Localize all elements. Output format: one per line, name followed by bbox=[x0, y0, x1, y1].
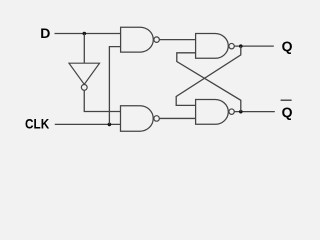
nand gate U4 bubble bbox=[229, 43, 234, 48]
node D junction bbox=[83, 32, 87, 36]
node CLK junction bbox=[108, 123, 112, 127]
label Qbar overline bbox=[281, 99, 292, 101]
wire D input bbox=[55, 33, 121, 35]
nand gate U5 bbox=[196, 100, 229, 125]
node Qbar junction bbox=[239, 110, 243, 114]
wire U3 output to U5 bbox=[159, 117, 195, 119]
wire CLK input bbox=[55, 123, 121, 125]
svg-text:CLK: CLK bbox=[25, 116, 49, 132]
wire CLK to U2 bbox=[109, 47, 120, 125]
node Q junction bbox=[239, 44, 243, 48]
wire inverter output to U3 bbox=[84, 90, 120, 111]
nand gate U3 bbox=[121, 106, 154, 132]
wire U2 output to U4 bbox=[159, 39, 195, 41]
wire U4 output to Q bbox=[234, 45, 273, 47]
wire U5 output to Qbar bbox=[234, 111, 274, 113]
inverter U1 bubble bbox=[81, 85, 87, 91]
wire cross Q to U5 input bbox=[176, 46, 241, 105]
svg-text:D: D bbox=[40, 25, 50, 41]
nand gate U2 bubble bbox=[154, 37, 160, 43]
wire D to inverter bbox=[83, 34, 85, 64]
wire cross Qbar to U4 input bbox=[177, 53, 241, 112]
svg-text:Q: Q bbox=[282, 104, 293, 120]
svg-text:Q: Q bbox=[282, 38, 293, 54]
nand gate U2 bbox=[121, 27, 154, 52]
nand gate U4 bbox=[196, 34, 229, 59]
inverter U1 bbox=[69, 63, 100, 84]
nand gate U3 bubble bbox=[154, 116, 160, 122]
nand gate U5 bubble bbox=[229, 109, 234, 114]
